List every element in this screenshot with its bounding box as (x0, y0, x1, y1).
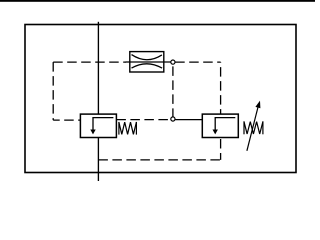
pilot line: node1 down to node2 (172, 64, 174, 116)
pilot line: upper horizontal from corner to orifice (53, 61, 126, 63)
pilot/drain line: relief valve bottom to corner (220, 138, 222, 160)
assembly enclosure (25, 25, 296, 173)
pressure compensator valve V1 (80, 114, 116, 137)
wire: main pressure line (vertical) (97, 22, 99, 114)
orifice O1 (venturi) (126, 52, 171, 72)
adjustment arrow across spring (247, 101, 261, 151)
node junction 2 (171, 117, 175, 121)
pressure relief valve V2 (202, 114, 238, 137)
pilot line: node2 left to compensator spring side (116, 119, 170, 121)
pilot line: left vertical drop (52, 62, 54, 120)
spring (compensator) (119, 122, 136, 135)
pilot line: node1 to right corner (175, 61, 220, 63)
node junction 1 (171, 60, 175, 64)
wire: node2 to relief valve left port (175, 119, 202, 121)
wire: main pressure line below compensator (97, 138, 99, 182)
arrowhead inside compensator (90, 130, 95, 135)
pilot line: right vertical down to relief valve top (220, 62, 222, 114)
arrowhead inside relief valve (213, 130, 218, 135)
pilot line: into compensator left port (53, 119, 80, 121)
pilot/drain line: bottom horizontal back to main line (98, 159, 220, 161)
adjustable spring (relief valve) (244, 121, 263, 134)
